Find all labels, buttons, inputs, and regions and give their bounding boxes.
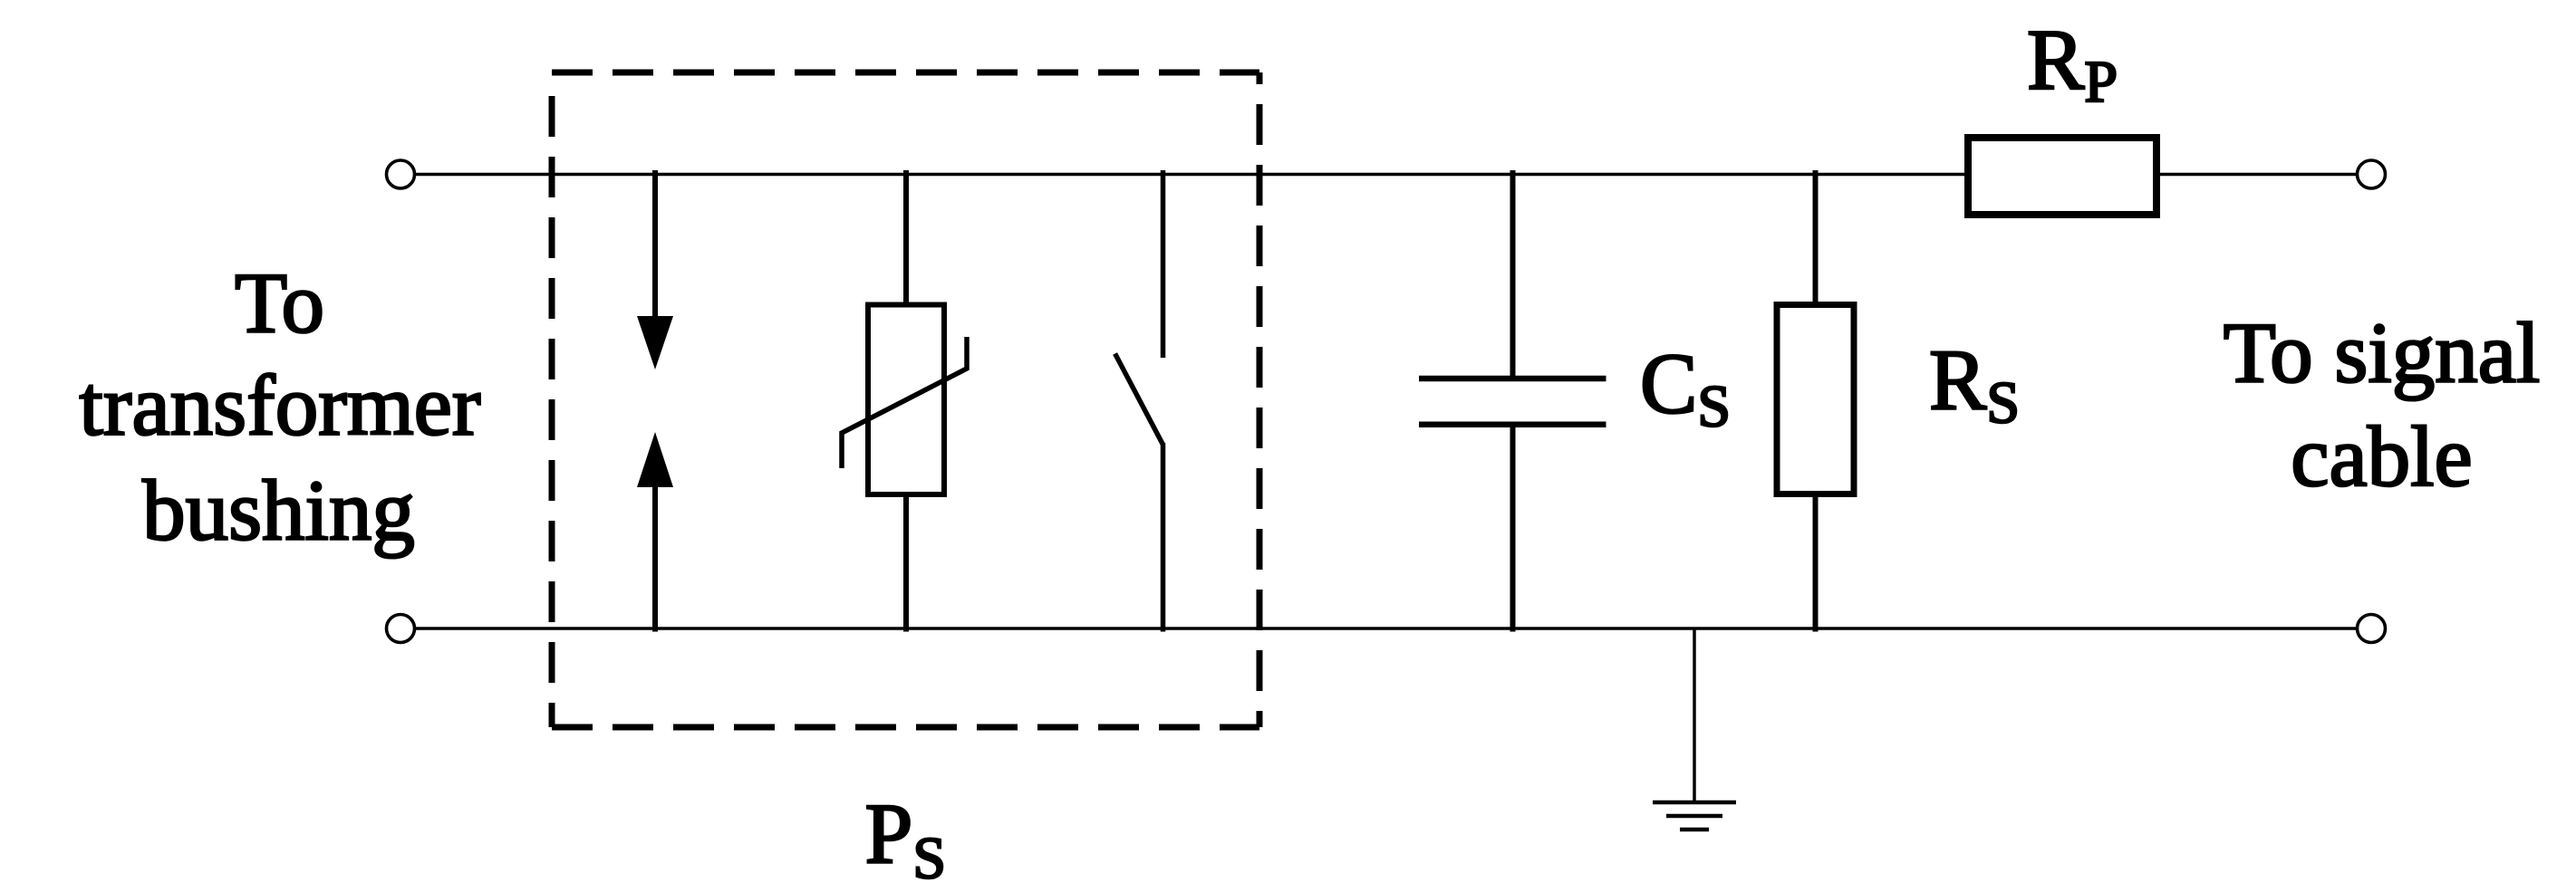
svg-text:To: To	[235, 255, 324, 351]
svg-text:CS: CS	[1640, 336, 1731, 440]
svg-text:RS: RS	[1929, 332, 2020, 436]
svg-text:bushing: bushing	[142, 463, 415, 559]
svg-text:cable: cable	[2291, 408, 2472, 504]
svg-text:transformer: transformer	[79, 358, 480, 454]
svg-text:To signal: To signal	[2224, 305, 2541, 401]
svg-text:RP: RP	[2027, 12, 2118, 115]
svg-text:PS: PS	[865, 786, 947, 892]
